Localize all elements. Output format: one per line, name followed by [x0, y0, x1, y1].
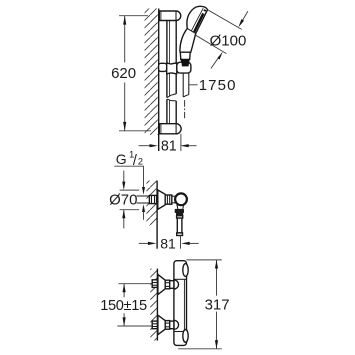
svg-text:1750: 1750 — [199, 77, 237, 94]
svg-text:150±15: 150±15 — [100, 298, 147, 314]
svg-text:317: 317 — [205, 296, 230, 313]
svg-text:2: 2 — [138, 156, 143, 166]
svg-text:81: 81 — [161, 138, 177, 154]
svg-text:Ø70: Ø70 — [109, 192, 137, 209]
svg-text:81: 81 — [160, 235, 176, 251]
svg-text:Ø100: Ø100 — [210, 33, 247, 50]
svg-text:620: 620 — [111, 65, 136, 82]
svg-text:G: G — [116, 151, 127, 167]
